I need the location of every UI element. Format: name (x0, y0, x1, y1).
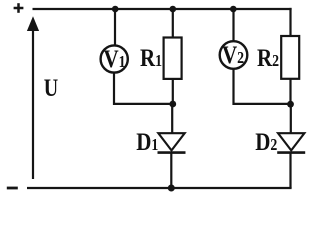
wire: D2 cathode to bottom bus (289, 153, 291, 188)
label V2 (222, 40, 244, 68)
wire: node F to D2 anode (290, 104, 292, 134)
diode D1 (158, 133, 186, 152)
wire: V1 bottom lead to node D (114, 72, 173, 104)
label V1 (103, 44, 125, 72)
wire: R2 bottom lead (289, 79, 291, 104)
node: top bus / V2 branch (230, 6, 237, 13)
wire: bottom bus (27, 187, 292, 189)
wire: R1 top lead (172, 9, 174, 39)
wire: V1 top lead (114, 9, 116, 46)
wire: D1 cathode to bottom bus (170, 153, 172, 188)
wire: R1 bottom lead (172, 79, 174, 104)
label: − terminal (7, 187, 18, 190)
node: bottom bus / D1 branch (168, 185, 175, 192)
resistor R2 (281, 36, 299, 79)
source arrow (voltage U) (27, 16, 39, 179)
wire: V2 top lead (232, 9, 234, 42)
resistor R1 (164, 38, 182, 79)
wire: top bus (33, 8, 292, 10)
label D1 (136, 127, 158, 155)
node: top bus / V1 branch (112, 6, 119, 13)
label R1 (140, 43, 162, 71)
diode D2 (277, 133, 305, 152)
wire: V2 bottom lead to node F (234, 69, 291, 104)
svg-text:U: U (44, 74, 58, 102)
node: top bus / R1 branch (170, 6, 177, 13)
label D2 (255, 127, 277, 155)
wire: node D to D1 anode (171, 104, 173, 134)
wire: top-right drop to R2 (289, 8, 291, 37)
node F: R2/D2 branch with V2 wire (287, 101, 294, 108)
label R2 (257, 43, 279, 71)
voltmeter V2 (220, 41, 248, 69)
label U (44, 74, 58, 102)
label: + terminal (14, 3, 24, 13)
voltmeter V1 (101, 45, 128, 72)
node D: R1/D1 branch with V1 wire (169, 101, 176, 108)
